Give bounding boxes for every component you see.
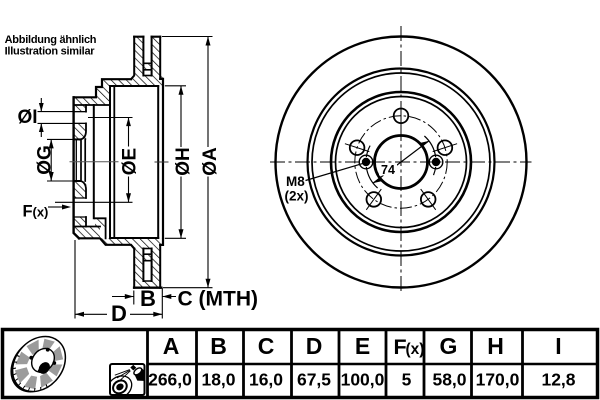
svg-text:5: 5 [402, 370, 412, 390]
friction band outer ring [308, 69, 495, 256]
drum rim inner line [113, 87, 115, 237]
ext lines OA [162, 37, 213, 288]
arrow C left [162, 294, 171, 299]
inboard plate faces [152, 37, 161, 79]
svg-text:B: B [140, 286, 156, 311]
M8 hole left [359, 155, 373, 169]
drum rim vertical x110 [109, 86, 111, 238]
svg-text:ØH: ØH [173, 147, 194, 176]
arrow F(x) right [62, 205, 71, 210]
SECTION VIEW [70, 37, 168, 288]
hub centre hole [36, 360, 52, 376]
bore bottom line [74, 180, 80, 182]
svg-text:266,0: 266,0 [148, 370, 192, 390]
ext line hole bottom edge [38, 122, 87, 124]
arrow OE down [126, 193, 131, 202]
arrow OA down [206, 279, 211, 288]
vent rib lines top [143, 63, 151, 70]
hatch shoulder top [74, 97, 110, 105]
table values [148, 370, 576, 390]
bolt hole top [394, 109, 409, 124]
hatch inboard plate top [152, 37, 161, 79]
DIMENSIONS LEFT [38, 37, 213, 319]
outboard plate faces bottom [134, 249, 143, 288]
disc front face [2, 326, 77, 400]
centre tick on drum end [155, 161, 168, 163]
hatch vent rib bottom [143, 254, 151, 261]
svg-text:A: A [163, 333, 180, 359]
arrow OI up [39, 123, 44, 132]
drum end inner face [157, 86, 159, 238]
hat outer ring [331, 92, 471, 232]
svg-text:C (MTH): C (MTH) [178, 288, 258, 311]
arrow D right [153, 312, 162, 317]
ext lines OG [47, 139, 74, 181]
icon disc outer [103, 371, 136, 400]
bore step x85 [84, 139, 86, 181]
bolt hole radial ticks [345, 103, 457, 210]
wheel bolt dots [46, 348, 50, 352]
ext lines OH [165, 86, 186, 239]
hatch outboard plate bottom [134, 249, 143, 288]
svg-text:67,5: 67,5 [297, 370, 331, 390]
bore step x81 [80, 140, 82, 182]
ext line B left [133, 291, 135, 305]
hat inner ring [336, 97, 467, 228]
centerline vertical [400, 26, 402, 292]
spray can cap [133, 367, 143, 377]
svg-text:16,0: 16,0 [249, 370, 283, 390]
PCD circle dashed [355, 116, 447, 208]
svg-text:74: 74 [381, 163, 395, 177]
arrow OG down [49, 172, 54, 181]
dim OE line [128, 118, 130, 203]
svg-text:18,0: 18,0 [201, 370, 235, 390]
spray coating icon box [103, 364, 146, 400]
outboard plate faces [131, 37, 143, 79]
svg-text:M8: M8 [286, 174, 305, 189]
TABLE [3, 329, 598, 398]
svg-text:I: I [555, 333, 561, 359]
table vertical lines [148, 329, 523, 397]
svg-text:100,0: 100,0 [341, 370, 385, 390]
bolt hole lower left [367, 192, 382, 207]
table header letters [163, 333, 562, 359]
arrow OA up [206, 37, 211, 46]
arrow OG up [49, 139, 54, 148]
outer circle [276, 37, 527, 288]
pilot bore face x79.5 [75, 139, 77, 181]
svg-text:D: D [306, 333, 323, 359]
dim D line [75, 313, 162, 315]
flange mounting face [74, 97, 79, 238]
74 dimension line [373, 141, 429, 183]
rim vent ticks [3, 355, 50, 400]
hatch vent cap bottom [143, 281, 151, 288]
centre bore [375, 136, 428, 189]
disc back ellipse (thickness) [0, 327, 74, 400]
bolt hole upper left [350, 140, 365, 155]
arrow OH down [179, 229, 184, 238]
hatch inboard plate bottom [152, 245, 161, 288]
hatch outboard plate top [134, 37, 143, 76]
svg-text:Illustration similar: Illustration similar [5, 45, 96, 57]
web outer profile top [74, 79, 131, 97]
svg-text:(2x): (2x) [285, 189, 309, 204]
hatch flange strips top [74, 105, 86, 112]
svg-text:H: H [487, 333, 504, 359]
bolt hole lower right [421, 192, 436, 207]
spray can body [134, 367, 146, 381]
table row divider [148, 363, 598, 366]
M8 hole right [429, 155, 443, 169]
shoulder inner edge top [74, 104, 110, 106]
svg-text:ØE: ØE [120, 148, 141, 175]
svg-text:B: B [210, 333, 227, 359]
friction band inner ring [312, 73, 490, 251]
svg-text:C: C [258, 333, 275, 359]
hatch flange strips bottom [74, 182, 86, 198]
bottom interior step [95, 218, 106, 238]
hub step vertical x92.5 [93, 105, 95, 218]
hatch footer bottom [74, 227, 100, 239]
svg-text:ØI: ØI [18, 107, 38, 128]
centre tick across hub [70, 161, 118, 163]
svg-text:ØA: ØA [200, 147, 221, 176]
74 circle arcs [366, 136, 435, 188]
note text "Abbildung ähnlich / Illustration similar" [5, 34, 97, 58]
dim OH line [180, 86, 182, 239]
inboard plate faces bottom [152, 245, 161, 288]
svg-text:D: D [111, 301, 127, 326]
table outer border [3, 330, 598, 398]
svg-text:(x): (x) [406, 341, 425, 358]
hatch web bottom [100, 238, 163, 248]
drum inner surface top [110, 85, 158, 87]
vent slot bottom top-half [143, 75, 151, 77]
F(x) leader [48, 206, 62, 208]
disc bottom edge [134, 287, 161, 289]
vent slot top bottom-half [143, 248, 151, 250]
svg-text:F: F [23, 202, 33, 220]
bolt holes [350, 109, 452, 207]
spray nozzle [130, 365, 136, 371]
svg-text:12,8: 12,8 [541, 370, 575, 390]
dim OI line [40, 98, 42, 137]
dim OG line [50, 139, 52, 181]
M8 leader line [306, 163, 366, 181]
ext line B/C/D right [161, 288, 163, 319]
bore top line [74, 138, 80, 140]
disc top edge [134, 36, 160, 38]
svg-text:Abbildung ähnlich: Abbildung ähnlich [5, 34, 97, 46]
bottom footer inner edge [74, 226, 100, 228]
svg-text:58,0: 58,0 [432, 370, 466, 390]
vent rib lines bottom [143, 254, 151, 281]
spray lines [115, 370, 131, 381]
arrow OI down [39, 103, 44, 112]
svg-text:170,0: 170,0 [476, 370, 520, 390]
hatch web top [102, 76, 163, 87]
arrow OH up [179, 86, 184, 95]
hatch vent rib top [143, 63, 151, 70]
gray vane wedges [5, 329, 73, 398]
bolt hole upper right [438, 140, 453, 155]
FRONT VIEW [270, 26, 532, 292]
arrow D left [75, 312, 84, 317]
svg-text:ØG: ØG [35, 145, 56, 175]
svg-text:(x): (x) [33, 204, 49, 219]
arrowheads [39, 37, 211, 317]
dim OA line [207, 37, 209, 288]
ext line hole top edge / OE top [38, 111, 87, 113]
drum inner surface bottom [110, 237, 158, 239]
bolt hole top edges [74, 112, 86, 124]
svg-text:E: E [355, 333, 370, 359]
bolt hole bottom edges [74, 198, 86, 217]
drum end outer face [160, 79, 163, 245]
ext line OE top [88, 117, 133, 119]
footer bottom edge [79, 238, 134, 248]
hub inner vertical x86 with bore fillets [80, 105, 86, 227]
ext line D left [74, 240, 76, 319]
arrow B right [125, 294, 134, 299]
svg-text:G: G [440, 333, 458, 359]
dim B arrows lines [112, 296, 176, 298]
arrow OE up [126, 118, 131, 127]
dimension labels left [18, 107, 258, 326]
3D disc illustration in first cell [0, 326, 76, 400]
ext line OE bottom [55, 201, 133, 203]
centerline horizontal [270, 161, 532, 163]
hub face [27, 344, 59, 377]
